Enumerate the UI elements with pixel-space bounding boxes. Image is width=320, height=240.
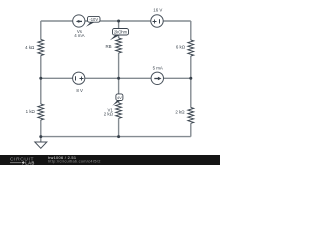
current source 5mA middle: [151, 72, 163, 84]
wire branch between RB and mid row: [118, 53, 120, 78]
current source Vs top: [73, 15, 85, 27]
svg-text:16 V: 16 V: [153, 8, 162, 13]
svg-text:http://circuitlab.com/c4r5r2: http://circuitlab.com/c4r5r2: [48, 159, 101, 164]
logo LAB row: [10, 162, 22, 164]
junction node mid right: [189, 77, 192, 80]
wire left column upper: [40, 21, 42, 40]
svg-text:2kOhm: 2kOhm: [114, 30, 128, 35]
wire right column lower: [190, 123, 192, 136]
svg-text:RB: RB: [105, 44, 111, 49]
svg-text:1 kΩ: 1 kΩ: [26, 109, 36, 114]
voltage source 8V middle: [73, 72, 85, 84]
svg-text:5 mA: 5 mA: [153, 66, 163, 71]
svg-text:2 kΩ: 2 kΩ: [175, 110, 185, 115]
svg-text:-10V: -10V: [89, 17, 98, 22]
svg-text:8 V: 8 V: [76, 88, 83, 93]
resistor R 1k left lower: [38, 104, 44, 120]
junction node mid left: [39, 77, 42, 80]
svg-text:LAB: LAB: [25, 161, 34, 166]
svg-text:4 mA: 4 mA: [74, 33, 84, 38]
wire left column middle: [40, 56, 42, 105]
callout 2kOhm: [110, 29, 129, 41]
callout -10V: [86, 16, 100, 26]
wire bottom row: [41, 136, 191, 138]
wire ground stub: [40, 137, 42, 142]
wire branch mid to V1: [118, 78, 120, 103]
wire middle row: [41, 77, 191, 79]
resistor R 4k left: [38, 40, 44, 56]
callout 4V: [112, 94, 123, 106]
svg-text:4V: 4V: [117, 95, 122, 100]
wire right column upper: [190, 21, 192, 40]
resistor V1 2k branch: [116, 103, 122, 118]
voltage source 16V top right: [151, 15, 163, 27]
resistor R 6k right: [188, 40, 194, 56]
junction node mid branch: [117, 77, 120, 80]
junction node top branch: [117, 20, 120, 23]
wire top row: [41, 21, 191, 142]
ground: [35, 142, 47, 148]
wire branch below V1: [118, 118, 120, 136]
resistor R 2k right lower: [188, 108, 194, 124]
junction node bottom branch: [117, 135, 120, 138]
wire left column lower: [40, 120, 42, 137]
junction node bottom left: [39, 135, 42, 138]
svg-text:4 kΩ: 4 kΩ: [25, 45, 35, 50]
banner: [0, 155, 220, 165]
wire branch upper: [118, 21, 120, 38]
resistor RB branch: [116, 38, 122, 53]
svg-text:2 kΩ: 2 kΩ: [104, 112, 114, 117]
wire right column middle: [190, 56, 192, 108]
svg-text:6 kΩ: 6 kΩ: [176, 45, 186, 50]
